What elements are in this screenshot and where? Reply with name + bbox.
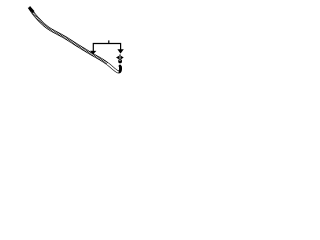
node A: bracket center tick — [108, 40, 110, 43]
wire: cable white core — [29, 7, 119, 72]
screw S1: winged head — [116, 56, 124, 60]
screw S1: stem — [119, 54, 122, 56]
wire: cable solid tip section — [29, 7, 33, 12]
screw S1: body — [118, 59, 122, 63]
leader arrow to cable (left) — [90, 51, 96, 55]
wire: control cable outer outline — [29, 7, 121, 72]
screw S1: body highlight — [119, 60, 120, 61]
screw S1: head slit — [119, 56, 122, 59]
wire: cable pointed tip — [29, 6, 33, 11]
leader arrow to screw (right) — [117, 49, 123, 53]
node A: callout bracket — [93, 44, 120, 52]
wire: cable end knob — [119, 65, 122, 68]
wire: cable rope hatching — [32, 12, 108, 63]
